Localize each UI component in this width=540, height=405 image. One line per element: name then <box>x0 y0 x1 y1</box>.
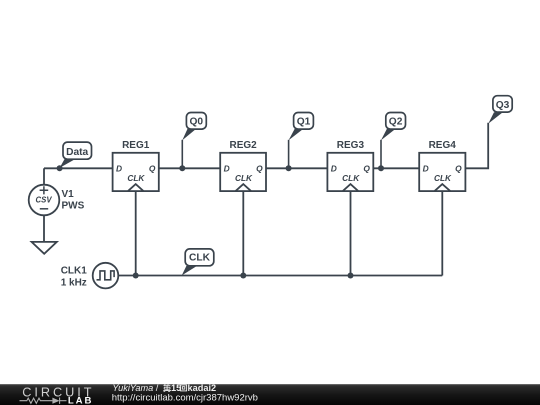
svg-text:15: 15 <box>171 383 181 393</box>
svg-text:D: D <box>224 164 230 174</box>
svg-text:http://circuitlab.com/cjr387hw: http://circuitlab.com/cjr387hw92rvb <box>112 392 258 403</box>
svg-text:1 kHz: 1 kHz <box>61 277 87 288</box>
svg-text:CLK: CLK <box>127 173 145 183</box>
svg-text:REG2: REG2 <box>229 140 257 151</box>
svg-text:REG4: REG4 <box>429 140 457 151</box>
svg-text:PWS: PWS <box>62 201 85 212</box>
svg-text:CLK1: CLK1 <box>61 265 88 276</box>
svg-text:CLK: CLK <box>434 173 452 183</box>
svg-text:CSV: CSV <box>36 196 53 205</box>
svg-text:REG3: REG3 <box>337 140 365 151</box>
svg-text:D: D <box>116 164 122 174</box>
svg-text:LAB: LAB <box>68 395 93 405</box>
svg-text:Q: Q <box>256 164 263 174</box>
svg-text:Q0: Q0 <box>190 117 204 128</box>
svg-text:Data: Data <box>66 147 88 158</box>
svg-text:CLK: CLK <box>342 173 360 183</box>
svg-text:YukiYama /: YukiYama / <box>112 383 158 393</box>
svg-text:Q3: Q3 <box>496 100 510 111</box>
svg-text:Q: Q <box>149 164 156 174</box>
svg-text:kadai2: kadai2 <box>188 383 217 393</box>
svg-text:D: D <box>331 164 337 174</box>
svg-text:V1: V1 <box>62 189 75 200</box>
svg-text:CLK: CLK <box>189 252 211 263</box>
svg-text:Q1: Q1 <box>297 117 311 128</box>
svg-text:D: D <box>423 164 429 174</box>
svg-text:Q2: Q2 <box>389 117 403 128</box>
svg-text:Q: Q <box>363 164 370 174</box>
svg-text:CLK: CLK <box>235 173 253 183</box>
svg-text:REG1: REG1 <box>122 140 150 151</box>
svg-text:Q: Q <box>455 164 462 174</box>
